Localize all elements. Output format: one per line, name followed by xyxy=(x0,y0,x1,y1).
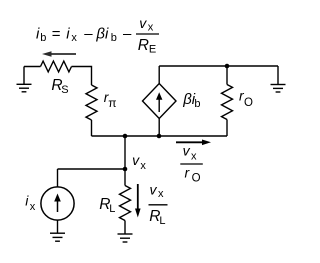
svg-text:x: x xyxy=(30,201,36,213)
ground (under ix) xyxy=(50,233,65,241)
svg-text:x: x xyxy=(158,188,164,200)
svg-text:b: b xyxy=(40,32,46,44)
arrow: vx/rO current direction (points right) xyxy=(176,140,211,146)
resistor r_pi xyxy=(86,85,97,120)
ground (under RL) xyxy=(118,234,133,242)
wire: rail to rO xyxy=(226,66,228,85)
label vx/rO fraction xyxy=(180,143,203,185)
svg-text:x: x xyxy=(71,32,77,44)
dependent current source beta-ib (diamond) xyxy=(143,84,177,119)
svg-text:v: v xyxy=(150,181,158,197)
arrow: vx/RL current direction (points down) xyxy=(135,184,141,218)
svg-text:x: x xyxy=(191,150,197,162)
node label vx xyxy=(132,152,146,172)
svg-text:L: L xyxy=(159,215,165,227)
wire: middle rail xyxy=(92,135,228,137)
resistor RL xyxy=(120,186,131,221)
label beta-ib xyxy=(182,91,200,110)
svg-text:v: v xyxy=(139,15,147,31)
svg-text:βi: βi xyxy=(95,26,109,43)
svg-text:O: O xyxy=(192,172,201,184)
svg-text:=: = xyxy=(52,26,61,43)
svg-text:E: E xyxy=(149,43,156,55)
wire: ground to RS xyxy=(24,66,41,68)
svg-text:v: v xyxy=(132,152,140,168)
ground (top right) xyxy=(271,66,286,92)
svg-text:x: x xyxy=(140,160,146,172)
svg-text:–: – xyxy=(84,26,93,43)
label r_pi xyxy=(104,89,117,110)
label ix xyxy=(25,192,36,213)
wire: rO bottom to rail xyxy=(226,120,228,137)
wire: RL bottom to ground xyxy=(124,221,126,235)
node junction (ix wire joins vx branch) xyxy=(123,167,128,172)
wire: top rail xyxy=(159,65,278,67)
wire: ix source to vx node xyxy=(58,168,126,170)
current direction arrow for ib (points left) xyxy=(42,51,76,57)
svg-text:–: – xyxy=(123,26,132,43)
node junction on rail (source bottom) xyxy=(157,134,162,139)
wire: diamond top to top rail xyxy=(158,66,160,84)
svg-text:R: R xyxy=(138,37,149,54)
wire: vx node down to RL xyxy=(124,169,126,186)
resistor rO xyxy=(222,85,233,120)
wire: r_pi bottom to middle rail xyxy=(91,120,93,136)
svg-text:x: x xyxy=(148,21,154,33)
label rO xyxy=(239,88,253,109)
resistor RS xyxy=(41,61,72,72)
label RS xyxy=(51,77,68,96)
svg-text:L: L xyxy=(109,203,115,215)
equation label: ib = ix - beta ib - vx/RE xyxy=(36,15,159,56)
svg-text:b: b xyxy=(194,98,200,110)
node junction on rail (vx branch) xyxy=(123,134,128,139)
ground (top left) xyxy=(17,67,32,92)
wire: diamond bottom to rail xyxy=(158,119,160,137)
wire: down to ix source xyxy=(57,169,59,187)
label RL xyxy=(99,196,115,215)
svg-text:O: O xyxy=(244,97,253,109)
node junction (rO top) xyxy=(225,64,230,69)
wire: ix bottom to ground xyxy=(57,220,59,233)
current source ix (circle) xyxy=(41,187,74,220)
wire: RS to r_pi corner xyxy=(72,67,92,86)
svg-text:S: S xyxy=(61,84,68,96)
svg-text:v: v xyxy=(183,143,191,159)
wire: rail down to vx node xyxy=(124,136,126,169)
svg-text:b: b xyxy=(111,32,117,44)
label vx/RL fraction xyxy=(149,181,168,227)
svg-text:π: π xyxy=(108,96,116,110)
